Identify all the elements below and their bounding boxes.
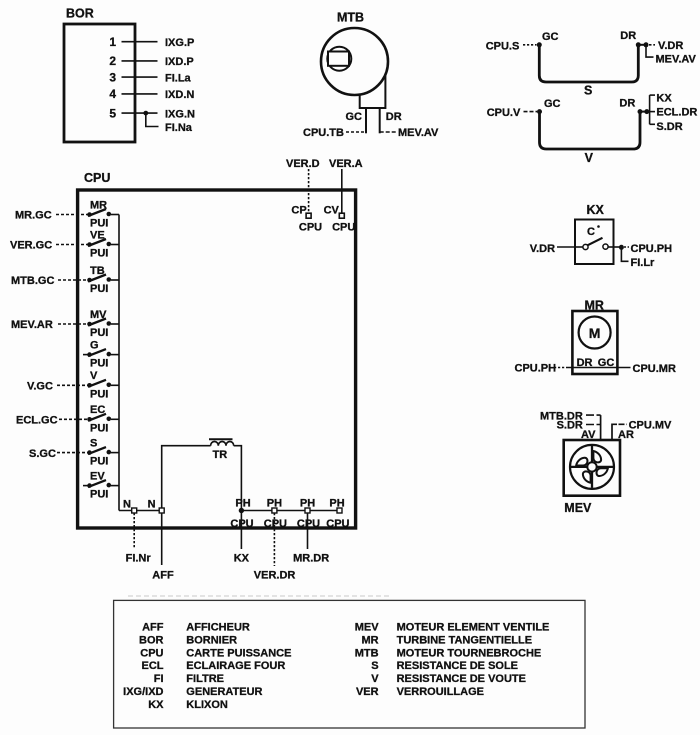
wire MEV.AV [380,127,439,139]
pin 2 [109,54,193,68]
relay bus vertical [118,215,120,511]
wire TR right to PH [234,446,242,511]
svg-text:CPU.TB: CPU.TB [303,127,344,139]
legend box [114,600,585,728]
pin 3 [109,70,191,84]
wire CPU.PH to MR [515,363,631,375]
svg-text:IXG/IXD: IXG/IXD [123,686,163,698]
svg-text:CPU.MR: CPU.MR [633,363,676,375]
wire VER.GC [10,240,88,252]
terminal PH 1 [230,498,253,530]
terminal CV [324,205,356,234]
svg-text:KX: KX [234,552,250,564]
pin 1 [109,35,194,49]
svg-text:CPU: CPU [264,518,287,530]
svg-text:VER.DR: VER.DR [254,569,296,581]
svg-text:MEV.AV: MEV.AV [656,54,697,66]
svg-text:FILTRE: FILTRE [186,673,224,685]
svg-text:MR: MR [361,635,378,647]
wire VER.DR [254,513,296,581]
terminal CP [291,205,322,234]
legend entries left [123,622,291,711]
svg-text:PUI: PUI [90,422,108,434]
wire V.DR to KX [530,243,575,255]
svg-text:PUI: PUI [90,218,108,230]
svg-text:V: V [585,151,594,165]
terminal N 1 [123,498,137,513]
svg-text:PUI: PUI [90,388,108,400]
wire V.GC [27,381,88,393]
node V DR [638,109,643,114]
terminal PH 4 [326,498,349,530]
svg-text:VERROUILLAGE: VERROUILLAGE [397,686,484,698]
svg-text:PUI: PUI [90,248,108,260]
switch G PUI [83,339,119,369]
svg-text:MEV.AV: MEV.AV [398,127,439,139]
svg-text:CPU.S: CPU.S [486,41,520,53]
fan MEV [564,440,620,515]
wire MEV.AR [11,319,88,331]
svg-text:S: S [371,660,378,672]
terminal PH 2 [264,498,287,530]
node CPU.PH junction [619,245,624,250]
node S DR [636,42,641,47]
wire MR.GC [15,210,88,222]
resistor V (voute) [487,97,640,165]
svg-text:AFF: AFF [152,569,174,581]
svg-text:PUI: PUI [90,358,108,370]
wire bracket KX/ECL.DR/S.DR [647,92,698,133]
svg-text:PH: PH [329,498,344,510]
svg-text:CP: CP [291,205,306,217]
resistor S (sole) [486,30,639,97]
switch S PUI [87,437,119,467]
wire V.DR [649,40,683,52]
svg-text:CPU: CPU [332,222,355,234]
svg-text:FI: FI [154,673,164,685]
transformer TR [209,439,234,461]
svg-text:ECLAIRAGE FOUR: ECLAIRAGE FOUR [186,660,285,672]
svg-text:MR.DR: MR.DR [293,552,329,564]
svg-text:CPU.V: CPU.V [487,107,521,119]
wire S.GC [29,448,88,460]
svg-text:V: V [90,370,98,382]
svg-text:MTB: MTB [355,647,379,659]
wire CPU.PH [624,243,672,255]
svg-text:3: 3 [109,70,116,84]
svg-text:DR: DR [386,111,402,123]
svg-text:KLIXON: KLIXON [186,699,228,711]
wire FI.Lr branch [621,247,655,268]
svg-text:S: S [584,84,592,98]
connector BOR [64,7,135,143]
svg-text:RESISTANCE DE VOUTE: RESISTANCE DE VOUTE [397,673,526,685]
svg-text:TR: TR [213,449,228,461]
svg-text:CV: CV [324,205,340,217]
svg-text:DR: DR [619,97,635,109]
svg-text:1: 1 [109,35,116,49]
pin 5 [109,106,195,120]
svg-text:BOR: BOR [66,7,94,21]
pin 4 [109,87,194,101]
svg-text:MOTEUR TOURNEBROCHE: MOTEUR TOURNEBROCHE [397,647,542,659]
svg-text:FI.La: FI.La [165,72,192,84]
svg-text:CPU: CPU [84,171,110,185]
svg-text:VER.GC: VER.GC [10,240,52,252]
svg-text:MEV: MEV [355,622,380,634]
motor MTB [321,11,388,109]
svg-text:IXG.P: IXG.P [165,37,194,49]
junction node pin5/FI.Na [143,111,148,116]
switch contacts KX [575,238,621,250]
svg-text:MEV: MEV [564,501,592,515]
klixon KX [575,203,614,264]
svg-text:KX: KX [587,203,605,217]
svg-text:S.DR: S.DR [557,420,583,432]
switch EV PUI [83,470,119,500]
svg-text:PUI: PUI [90,489,108,501]
svg-text:C: C [587,226,595,238]
svg-text:4: 4 [109,87,116,101]
svg-text:GC: GC [544,98,561,110]
terminal N 2 [148,498,165,513]
svg-text:GENERATEUR: GENERATEUR [186,686,262,698]
wire KX [234,513,250,564]
node S GC [537,42,542,47]
wire ECL.GC [16,415,88,427]
wire MEV.AV branch [646,45,697,66]
svg-text:TURBINE TANGENTIELLE: TURBINE TANGENTIELLE [397,635,532,647]
svg-text:KX: KX [656,92,672,104]
switch V PUI [87,370,119,400]
relay bus bottom to N [119,510,162,512]
svg-text:GC: GC [346,111,363,123]
svg-text:N: N [148,498,156,510]
svg-text:CPU: CPU [299,222,322,234]
svg-text:CPU: CPU [140,647,163,659]
svg-text:PH: PH [267,498,282,510]
svg-text:FI.Lr: FI.Lr [631,257,656,269]
svg-text:PUI: PUI [90,456,108,468]
switch TB PUI [87,265,119,295]
svg-text:GC: GC [542,31,559,43]
node ECL.DR junction [640,109,649,114]
svg-text:AFF: AFF [142,622,164,634]
svg-text:CPU.PH: CPU.PH [515,363,557,375]
switch EC PUI [87,404,119,434]
wire FI.Na branch [146,113,193,134]
svg-text:FI.Na: FI.Na [165,122,193,134]
svg-text:BOR: BOR [139,635,164,647]
svg-text:MR.GC: MR.GC [15,210,52,222]
svg-text:IXD.P: IXD.P [165,56,194,68]
legend entries right [355,622,550,698]
svg-text:PUI: PUI [90,283,108,295]
svg-text:MTB: MTB [337,11,364,25]
svg-text:FI.Nr: FI.Nr [126,552,152,564]
wire S.DR to MEV AV [557,420,601,432]
svg-text:RESISTANCE DE SOLE: RESISTANCE DE SOLE [397,660,518,672]
scan noise line [128,595,392,597]
svg-text:DR: DR [620,30,636,42]
svg-text:S.GC: S.GC [29,448,56,460]
wire FI.Nr [126,513,152,564]
svg-text:V: V [371,673,379,685]
svg-text:2: 2 [109,54,116,68]
wire CPU.MV [612,420,672,441]
switch VE PUI [87,229,119,259]
wire MTB.GC [11,275,88,287]
wire AFF [152,513,174,581]
wire VER.D [286,158,320,213]
svg-text:VER.D: VER.D [286,158,320,170]
terminal MTB DR [380,108,402,133]
svg-text:ECL: ECL [142,660,164,672]
svg-text:PH: PH [300,498,315,510]
svg-text:MEV.AR: MEV.AR [11,319,53,331]
svg-text:ECL.DR: ECL.DR [656,107,697,119]
svg-text:M: M [589,325,601,341]
node V.DR junction [638,42,648,47]
switch MR PUI [87,199,119,229]
svg-text:5: 5 [109,106,116,120]
svg-text:VER.A: VER.A [329,158,363,170]
svg-text:CPU.MV: CPU.MV [629,420,672,432]
wire CPU.TB [303,127,366,139]
wire MR.DR [293,513,329,564]
svg-text:CPU: CPU [326,518,349,530]
svg-text:V.DR: V.DR [530,243,555,255]
svg-text:IXD.N: IXD.N [165,89,194,101]
svg-text:G: G [90,339,99,351]
svg-text:VER: VER [356,686,379,698]
svg-text:IXG.N: IXG.N [165,108,195,120]
terminal PH 3 [297,498,320,530]
terminal MTB GC [346,108,367,133]
bus PH [241,510,339,512]
wire VER.A [329,158,363,213]
board CPU [78,171,356,528]
wire MTB.DR to MEV AV [540,410,601,422]
svg-text:PH: PH [235,498,250,510]
svg-text:AFFICHEUR: AFFICHEUR [186,622,250,634]
svg-text:V.DR: V.DR [658,40,683,52]
svg-text:V.GC: V.GC [27,381,53,393]
svg-text:MTB.GC: MTB.GC [11,275,54,287]
terminal MEV AV [581,415,601,441]
svg-text:N: N [123,498,131,510]
wire TR left to N [162,446,211,508]
svg-text:CPU: CPU [297,518,320,530]
node V GC [537,109,542,114]
svg-text:KX: KX [148,699,164,711]
svg-text:S.DR: S.DR [656,121,682,133]
svg-text:ECL.GC: ECL.GC [16,415,58,427]
svg-text:CPU.PH: CPU.PH [631,243,673,255]
svg-text:MOTEUR ELEMENT VENTILE: MOTEUR ELEMENT VENTILE [397,622,550,634]
svg-text:PUI: PUI [90,327,108,339]
motor MR (turbine) [572,299,617,375]
svg-text:CARTE PUISSANCE: CARTE PUISSANCE [186,647,291,659]
svg-text:BORNIER: BORNIER [186,635,237,647]
switch MV PUI [87,309,119,339]
svg-text:S: S [90,437,97,449]
